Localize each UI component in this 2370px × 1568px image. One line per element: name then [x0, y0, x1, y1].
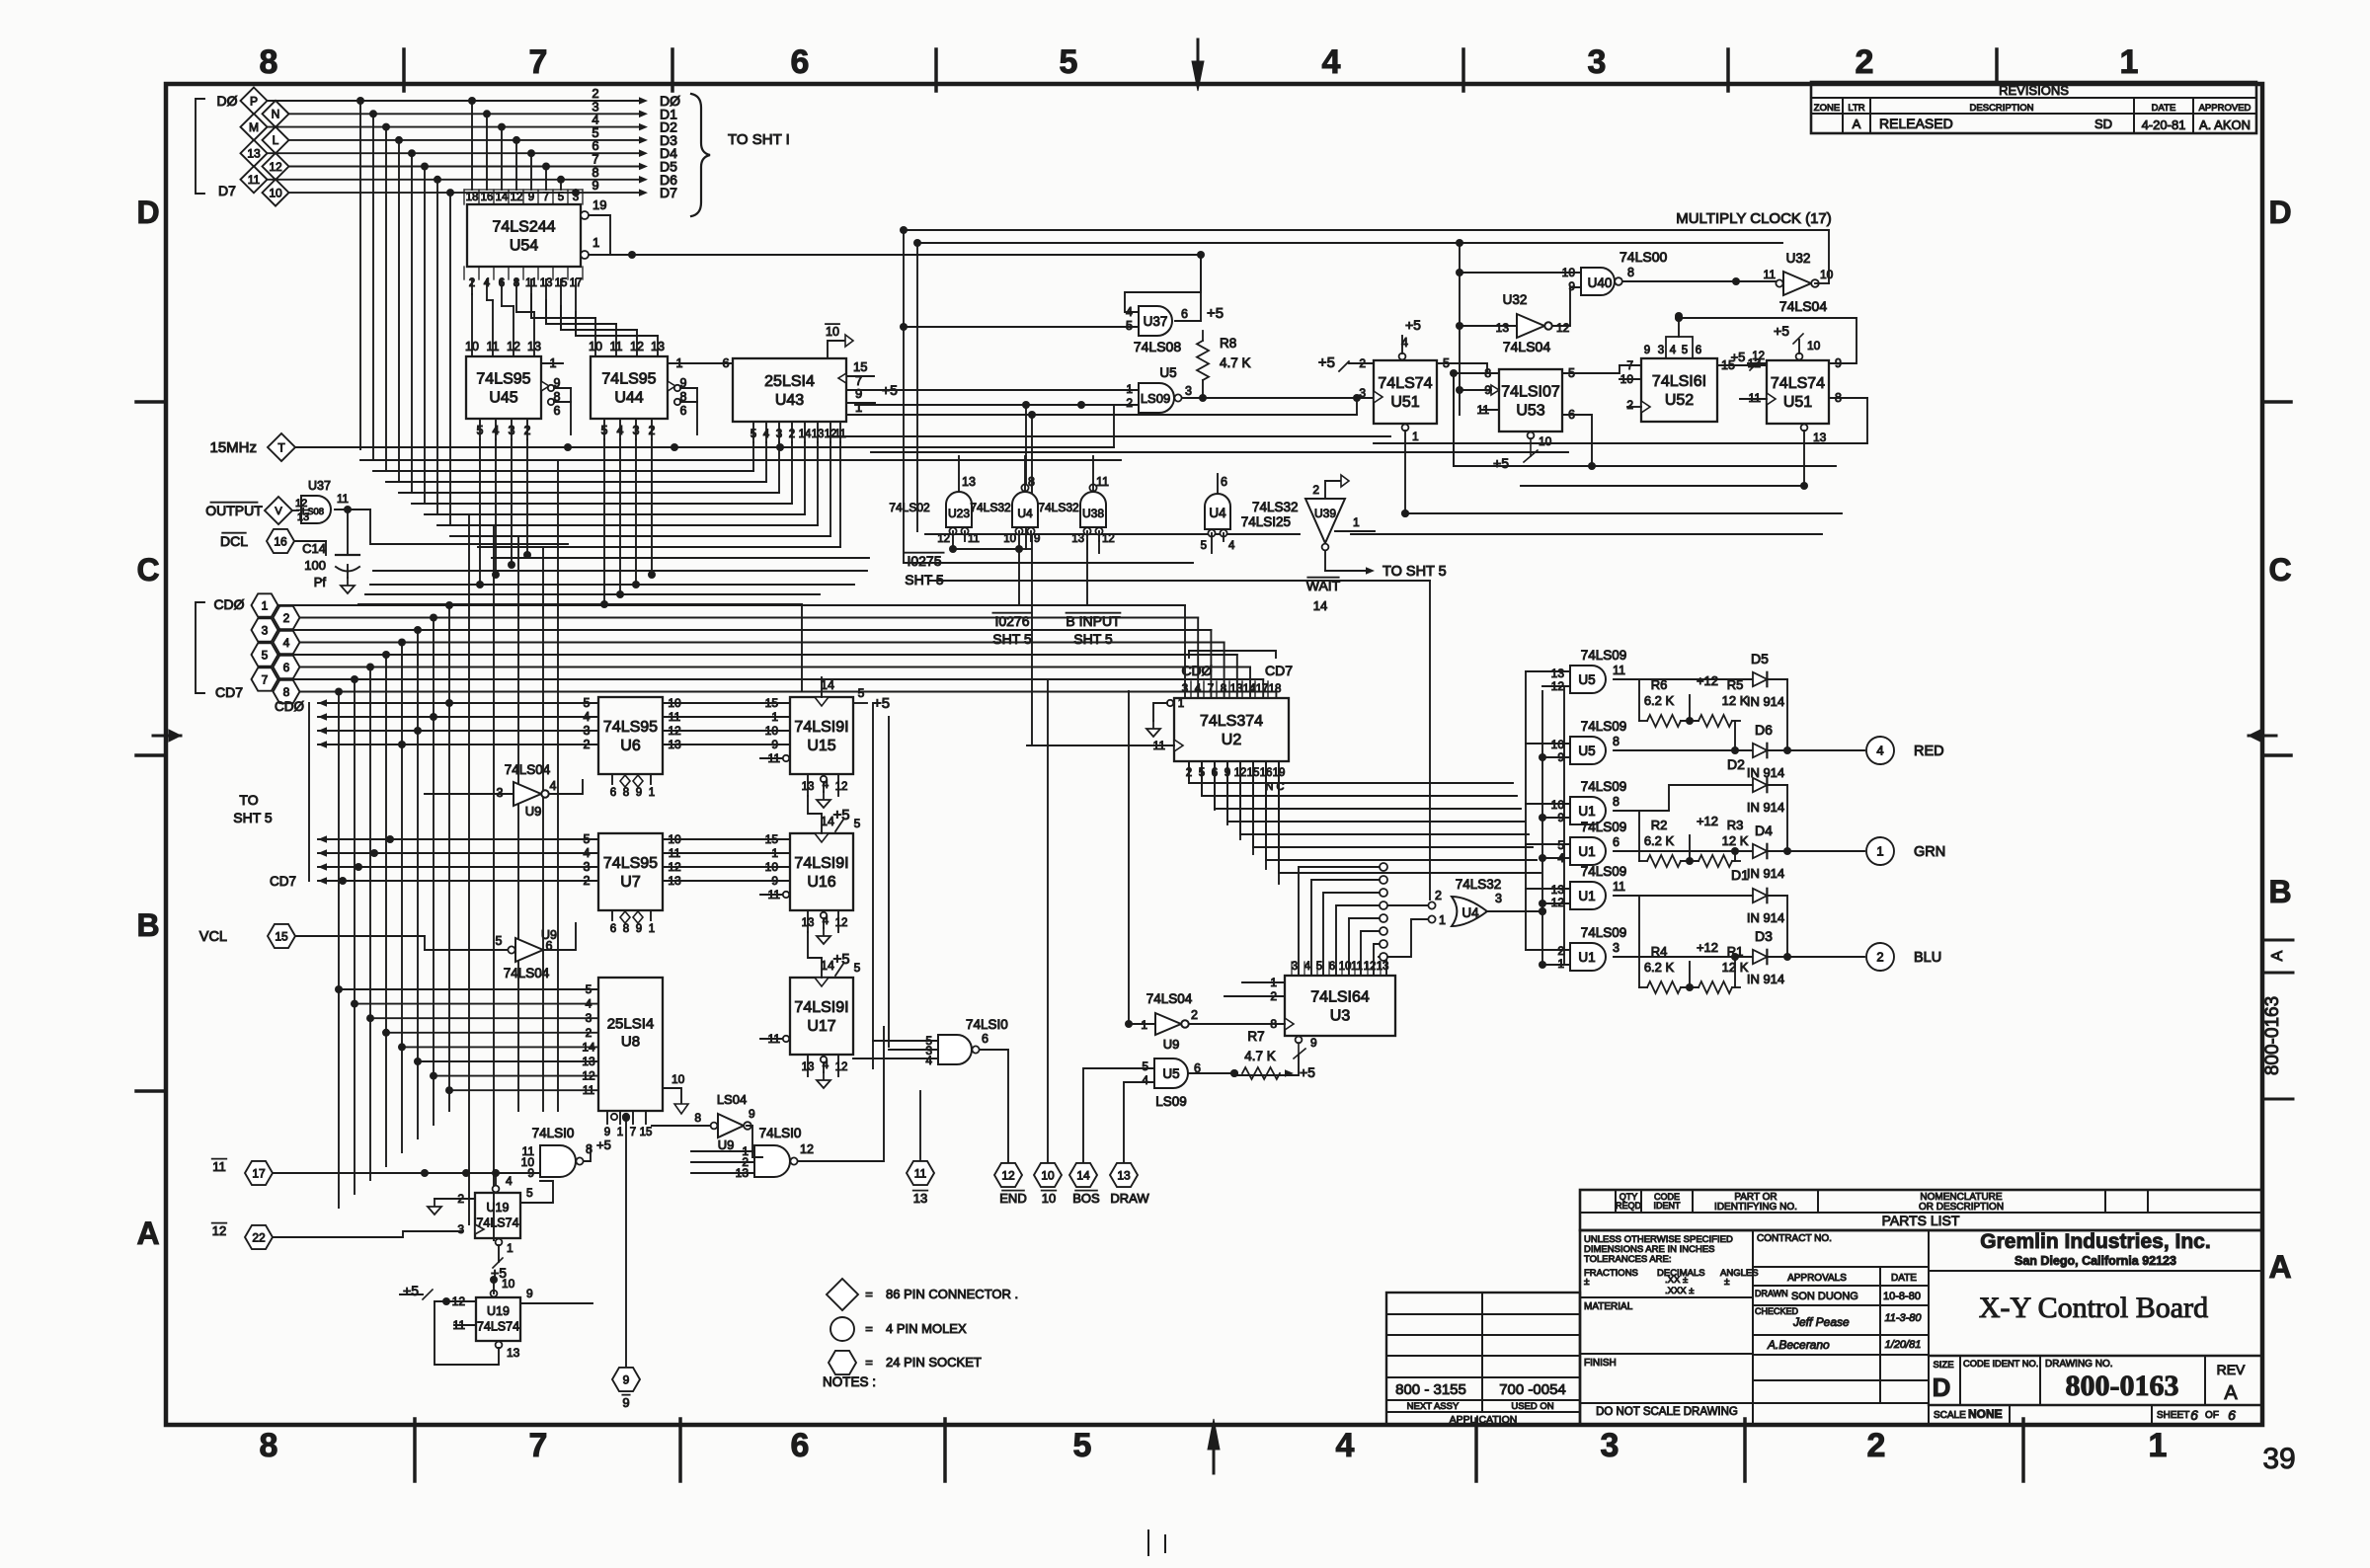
svg-text:IN 914: IN 914: [1747, 972, 1784, 986]
svg-text:OF: OF: [2205, 1410, 2219, 1421]
svg-text:2: 2: [649, 424, 656, 437]
svg-text:LS09: LS09: [1141, 391, 1170, 406]
svg-text:13: 13: [1496, 321, 1510, 335]
svg-text:1: 1: [1141, 1018, 1147, 1032]
svg-text:PARTS LIST: PARTS LIST: [1882, 1213, 1960, 1228]
svg-text:22: 22: [252, 1230, 266, 1244]
svg-text:6: 6: [283, 661, 290, 674]
svg-text:8: 8: [1028, 475, 1035, 489]
svg-text:MULTIPLY CLOCK (17): MULTIPLY CLOCK (17): [1676, 210, 1832, 227]
svg-text:3: 3: [1588, 43, 1607, 81]
svg-text:15: 15: [640, 1127, 653, 1138]
svg-text:74LS32: 74LS32: [1456, 877, 1502, 892]
svg-text:P: P: [250, 94, 258, 108]
svg-text:5: 5: [601, 424, 608, 437]
svg-text:D7: D7: [660, 185, 677, 200]
svg-text:+5: +5: [1318, 354, 1335, 371]
svg-text:14: 14: [1076, 1168, 1090, 1182]
svg-text:4: 4: [1322, 43, 1341, 81]
svg-text:5: 5: [1201, 540, 1207, 552]
svg-text:+5: +5: [1405, 317, 1421, 333]
svg-text:2: 2: [1557, 944, 1564, 958]
svg-text:10: 10: [269, 186, 282, 199]
svg-text:5: 5: [1682, 345, 1688, 356]
svg-text:4: 4: [1557, 851, 1564, 865]
svg-text:10: 10: [1539, 434, 1552, 448]
svg-text:3: 3: [1185, 384, 1192, 398]
svg-text:CDØ: CDØ: [213, 596, 244, 612]
svg-text:8: 8: [623, 787, 629, 799]
svg-text:14: 14: [1243, 683, 1256, 695]
svg-text:1: 1: [1126, 382, 1133, 396]
svg-text:11-3-80: 11-3-80: [1884, 1312, 1922, 1324]
svg-text:13: 13: [507, 1346, 520, 1360]
svg-text:12: 12: [295, 498, 307, 510]
svg-text:U4: U4: [1461, 905, 1479, 920]
svg-text:74LSI07: 74LSI07: [1501, 384, 1560, 401]
svg-text:D3: D3: [1755, 928, 1773, 944]
svg-text:7: 7: [262, 672, 269, 686]
svg-text:5: 5: [854, 817, 861, 830]
svg-text:15: 15: [275, 929, 288, 943]
svg-text:2: 2: [1191, 1008, 1198, 1022]
svg-text:74LS04: 74LS04: [1146, 991, 1193, 1006]
svg-text:SHT 5: SHT 5: [1073, 631, 1113, 647]
svg-text:12: 12: [1102, 533, 1115, 545]
svg-text:IN 914: IN 914: [1747, 910, 1784, 925]
svg-text:2: 2: [524, 424, 531, 437]
svg-text:3: 3: [1613, 941, 1619, 955]
svg-text:18: 18: [466, 192, 479, 203]
svg-text:C14: C14: [302, 541, 326, 556]
svg-text:END: END: [999, 1191, 1026, 1206]
svg-text:4: 4: [1304, 961, 1311, 973]
svg-text:74LSI9I: 74LSI9I: [794, 855, 848, 872]
svg-text:3: 3: [1359, 386, 1366, 400]
svg-text:15: 15: [765, 832, 779, 846]
svg-text:CODE IDENT NO.: CODE IDENT NO.: [1963, 1359, 2038, 1369]
svg-text:MATERIAL: MATERIAL: [1584, 1301, 1633, 1312]
svg-text:U1: U1: [1578, 844, 1595, 859]
svg-text:74LSI0: 74LSI0: [966, 1017, 1008, 1032]
svg-text:±: ±: [1724, 1277, 1730, 1288]
svg-text:6: 6: [1221, 475, 1227, 489]
svg-text:U5: U5: [1578, 744, 1595, 758]
svg-text:7: 7: [630, 1127, 636, 1138]
svg-text:D7: D7: [218, 183, 236, 198]
svg-text:+12: +12: [1697, 940, 1718, 955]
svg-text:13: 13: [1551, 883, 1565, 897]
svg-text:SHEET: SHEET: [2157, 1410, 2189, 1421]
svg-text:3: 3: [1495, 892, 1502, 905]
svg-text:3: 3: [776, 429, 782, 440]
svg-text:800-0163: 800-0163: [2066, 1370, 2179, 1402]
svg-text:1: 1: [2149, 1427, 2168, 1464]
svg-text:1: 1: [617, 1127, 623, 1138]
svg-text:CD7: CD7: [270, 874, 296, 889]
svg-text:U9: U9: [718, 1137, 735, 1152]
svg-text:74LSI0: 74LSI0: [532, 1126, 575, 1140]
svg-text:10: 10: [765, 860, 779, 874]
svg-text:SHT 5: SHT 5: [905, 572, 944, 588]
svg-text:U44: U44: [614, 390, 643, 407]
svg-text:9: 9: [636, 923, 642, 935]
svg-text:U9: U9: [541, 928, 557, 942]
svg-text:11: 11: [212, 1159, 226, 1174]
svg-text:74LSI64: 74LSI64: [1310, 989, 1370, 1006]
svg-text:U53: U53: [1516, 403, 1544, 420]
svg-text:U40: U40: [1588, 275, 1613, 290]
svg-text:10: 10: [1041, 1168, 1055, 1182]
svg-text:1: 1: [1557, 957, 1564, 971]
svg-text:2: 2: [1435, 889, 1442, 902]
svg-text:D: D: [136, 195, 159, 230]
svg-text:4 PIN MOLEX: 4 PIN MOLEX: [886, 1321, 967, 1336]
svg-text:6: 6: [1613, 835, 1619, 849]
svg-text:12: 12: [269, 160, 282, 174]
svg-text:U1: U1: [1578, 950, 1595, 965]
svg-text:9: 9: [855, 386, 862, 401]
svg-text:FINISH: FINISH: [1584, 1358, 1617, 1369]
svg-text:1: 1: [649, 787, 655, 799]
svg-text:100: 100: [304, 558, 326, 573]
svg-text:11: 11: [610, 340, 623, 353]
svg-text:4: 4: [617, 424, 624, 437]
svg-text:5: 5: [1126, 319, 1133, 333]
svg-text:TO SHT I: TO SHT I: [728, 131, 790, 148]
svg-text:3: 3: [573, 192, 579, 203]
svg-text:12: 12: [800, 1142, 814, 1156]
svg-text:APPROVALS: APPROVALS: [1787, 1273, 1847, 1284]
svg-text:3: 3: [457, 1222, 464, 1236]
svg-text:8: 8: [260, 1427, 278, 1464]
svg-text:D2: D2: [1727, 756, 1745, 772]
svg-text:U6: U6: [620, 738, 641, 754]
svg-text:DCL: DCL: [220, 533, 248, 549]
svg-text:A.Becerano: A.Becerano: [1767, 1338, 1830, 1352]
svg-text:4: 4: [1142, 1073, 1148, 1087]
svg-text:8: 8: [1613, 735, 1619, 748]
svg-text:13: 13: [527, 340, 541, 353]
svg-text:4: 4: [506, 1174, 513, 1188]
svg-text:8: 8: [1627, 266, 1634, 279]
svg-text:9: 9: [1557, 750, 1564, 764]
svg-text:9: 9: [1557, 811, 1564, 824]
svg-text:OR DESCRIPTION: OR DESCRIPTION: [1919, 1202, 2004, 1213]
svg-text:SD: SD: [2094, 117, 2112, 131]
svg-text:6: 6: [982, 1032, 988, 1046]
svg-text:SHT 5: SHT 5: [992, 631, 1032, 647]
svg-text:12: 12: [835, 917, 848, 929]
svg-text:5: 5: [1557, 838, 1564, 852]
svg-text:10: 10: [1551, 798, 1565, 812]
svg-text:6: 6: [1329, 961, 1335, 973]
svg-text:74LS00: 74LS00: [1619, 249, 1667, 265]
svg-text:U4: U4: [1209, 506, 1226, 520]
svg-text:C: C: [136, 552, 159, 588]
svg-text:+5: +5: [882, 382, 898, 398]
svg-text:12: 12: [630, 340, 644, 353]
svg-text:15: 15: [853, 359, 867, 374]
svg-text:4: 4: [493, 424, 500, 437]
svg-text:1: 1: [2120, 43, 2139, 81]
svg-text:9: 9: [528, 192, 534, 203]
svg-text:IN 914: IN 914: [1747, 866, 1784, 881]
svg-text:OUTPUT: OUTPUT: [205, 503, 263, 518]
svg-text:8: 8: [1613, 795, 1619, 809]
svg-text:10: 10: [1003, 533, 1016, 545]
svg-text:+12: +12: [1697, 814, 1718, 828]
svg-text:2: 2: [789, 429, 795, 440]
svg-text:6.2 K: 6.2 K: [1644, 693, 1675, 708]
svg-text:74LS09: 74LS09: [1581, 648, 1627, 663]
svg-text:LTR: LTR: [1848, 103, 1864, 114]
svg-text:10: 10: [1820, 268, 1834, 281]
svg-text:R4: R4: [1651, 944, 1668, 959]
svg-text:U54: U54: [510, 238, 538, 255]
svg-text:.XXX ±: .XXX ±: [1665, 1286, 1695, 1296]
svg-text:12: 12: [937, 533, 950, 545]
svg-text:10: 10: [826, 325, 839, 339]
svg-text:IN 914: IN 914: [1747, 694, 1784, 709]
svg-text:U5: U5: [1578, 672, 1595, 687]
svg-text:11: 11: [337, 494, 349, 506]
svg-text:U9: U9: [1163, 1037, 1180, 1052]
svg-text:12: 12: [1551, 896, 1565, 909]
svg-text:DRAWING NO.: DRAWING NO.: [2045, 1359, 2113, 1370]
svg-text:4: 4: [283, 636, 290, 650]
svg-text:4: 4: [1336, 1427, 1355, 1464]
svg-text:+5: +5: [1774, 323, 1789, 339]
svg-text:11: 11: [487, 340, 500, 353]
svg-text:3: 3: [1292, 961, 1298, 973]
svg-text:700 -0054: 700 -0054: [1499, 1381, 1566, 1398]
svg-text:74LS74: 74LS74: [1771, 375, 1825, 392]
svg-text:74LS74: 74LS74: [477, 1320, 519, 1334]
svg-text:74LS02: 74LS02: [889, 501, 930, 514]
svg-text:B: B: [2268, 874, 2291, 909]
svg-text:L: L: [273, 133, 279, 147]
svg-text:11: 11: [248, 173, 261, 187]
svg-text:3: 3: [1601, 1427, 1619, 1464]
svg-text:San Diego, California 92123: San Diego, California 92123: [2014, 1254, 2176, 1268]
svg-text:U4: U4: [1017, 507, 1033, 520]
svg-text:13: 13: [1813, 431, 1827, 444]
svg-text:74LS74: 74LS74: [476, 1216, 518, 1230]
svg-text:SIZE: SIZE: [1933, 1360, 1953, 1371]
svg-text:Pf: Pf: [314, 575, 327, 589]
svg-text:DØ: DØ: [217, 93, 238, 109]
svg-text:2: 2: [1856, 43, 1874, 81]
svg-text:WAIT: WAIT: [1306, 578, 1341, 593]
svg-text:74LS04: 74LS04: [1779, 298, 1827, 314]
svg-text:8: 8: [694, 1111, 701, 1125]
svg-text:1: 1: [649, 923, 655, 935]
svg-text:U15: U15: [807, 738, 835, 754]
svg-text:9: 9: [1310, 1036, 1317, 1050]
svg-text:12: 12: [1551, 679, 1565, 693]
svg-text:DESCRIPTION: DESCRIPTION: [1970, 103, 2034, 114]
svg-text:1: 1: [1439, 913, 1446, 927]
svg-text:3: 3: [1182, 683, 1188, 695]
svg-text:74LSI25: 74LSI25: [1241, 514, 1291, 529]
svg-text:74LS09: 74LS09: [1581, 779, 1627, 794]
svg-text:T: T: [277, 440, 285, 454]
svg-text:U9: U9: [525, 804, 542, 819]
svg-text:+5: +5: [1731, 350, 1746, 364]
svg-text:RED: RED: [1914, 744, 1944, 759]
svg-text:CONTRACT NO.: CONTRACT NO.: [1757, 1233, 1832, 1244]
svg-text:=: =: [865, 1321, 873, 1336]
svg-text:U3: U3: [1330, 1008, 1351, 1025]
svg-text:REVISIONS: REVISIONS: [1999, 83, 2069, 98]
svg-text:74LS95: 74LS95: [601, 371, 656, 388]
svg-text:RELEASED: RELEASED: [1879, 116, 1953, 131]
svg-text:74LS04: 74LS04: [1503, 339, 1550, 354]
svg-text:=: =: [865, 1355, 873, 1370]
svg-text:5: 5: [854, 961, 861, 975]
svg-text:10: 10: [1042, 1191, 1056, 1206]
svg-text:D4: D4: [1755, 823, 1773, 838]
svg-text:U51: U51: [1390, 394, 1419, 411]
svg-text:10: 10: [671, 1072, 685, 1086]
svg-text:17: 17: [252, 1166, 266, 1180]
svg-text:74LS74: 74LS74: [1378, 375, 1432, 392]
svg-text:12: 12: [1556, 321, 1570, 335]
svg-text:13: 13: [913, 1191, 927, 1206]
svg-text:IDENTIFYING NO.: IDENTIFYING NO.: [1714, 1202, 1797, 1213]
svg-text:U19: U19: [487, 1304, 510, 1318]
svg-text:7: 7: [529, 1427, 548, 1464]
svg-text:800 - 3155: 800 - 3155: [1395, 1381, 1466, 1398]
svg-text:12: 12: [835, 781, 848, 793]
svg-text:12: 12: [1001, 1168, 1015, 1182]
svg-text:9: 9: [771, 874, 778, 888]
svg-text:2: 2: [1312, 483, 1319, 497]
svg-text:U5: U5: [1162, 1066, 1179, 1081]
svg-text:12 K: 12 K: [1722, 693, 1749, 708]
svg-text:5: 5: [750, 429, 756, 440]
svg-text:11: 11: [968, 533, 980, 545]
svg-text:14: 14: [496, 192, 509, 203]
svg-text:74LS04: 74LS04: [505, 762, 551, 777]
svg-text:I0276: I0276: [994, 613, 1029, 629]
svg-text:REV: REV: [2217, 1362, 2246, 1377]
svg-text:9: 9: [526, 1287, 533, 1300]
svg-text:4: 4: [1876, 744, 1883, 758]
svg-text:Jeff Pease: Jeff Pease: [1792, 1315, 1850, 1329]
svg-text:6: 6: [1181, 307, 1188, 321]
svg-text:U52: U52: [1665, 392, 1694, 409]
svg-text:9: 9: [592, 178, 598, 193]
svg-text:10: 10: [1807, 339, 1821, 353]
svg-text:13: 13: [962, 475, 976, 489]
svg-text:14: 14: [799, 429, 812, 440]
svg-text:10: 10: [765, 724, 779, 738]
svg-text:74LS09: 74LS09: [1581, 864, 1627, 879]
svg-text:DRAWN: DRAWN: [1755, 1289, 1788, 1298]
svg-text:5: 5: [496, 934, 503, 948]
svg-text:C: C: [2268, 552, 2291, 588]
svg-text:D: D: [1933, 1372, 1951, 1402]
svg-text:U1: U1: [1578, 889, 1595, 903]
svg-text:4: 4: [925, 1054, 932, 1067]
svg-text:SON DUONG: SON DUONG: [1791, 1291, 1858, 1302]
svg-text:13: 13: [651, 340, 665, 353]
svg-text:R3: R3: [1727, 818, 1744, 832]
svg-text:A: A: [2224, 1382, 2238, 1404]
svg-text:U19: U19: [487, 1201, 510, 1215]
svg-text:11: 11: [1613, 664, 1625, 677]
svg-text:13: 13: [1551, 666, 1565, 680]
svg-text:4: 4: [1228, 540, 1235, 552]
svg-text:6: 6: [2190, 1407, 2198, 1423]
svg-text:13: 13: [1230, 683, 1243, 695]
svg-text:4: 4: [763, 429, 770, 440]
svg-text:+5: +5: [596, 1137, 611, 1152]
svg-text:5: 5: [858, 686, 865, 700]
svg-text:A: A: [1853, 117, 1861, 131]
svg-text:11: 11: [1613, 880, 1625, 894]
svg-text:9: 9: [1034, 533, 1040, 545]
svg-text:R7: R7: [1247, 1029, 1264, 1044]
svg-text:18: 18: [1269, 683, 1282, 695]
svg-text:13: 13: [1117, 1168, 1131, 1182]
svg-text:R6: R6: [1651, 677, 1668, 692]
svg-text:74LS32: 74LS32: [1038, 501, 1079, 514]
svg-text:9: 9: [1644, 345, 1650, 356]
svg-text:11: 11: [834, 429, 846, 440]
svg-text:74LSI0: 74LSI0: [759, 1126, 802, 1140]
svg-text:1: 1: [855, 400, 862, 415]
svg-text:NONE: NONE: [1968, 1407, 2003, 1421]
svg-text:1: 1: [771, 846, 778, 860]
svg-text:CHECKED: CHECKED: [1755, 1306, 1799, 1316]
svg-text:11: 11: [1749, 391, 1762, 405]
svg-text:TO: TO: [239, 792, 258, 808]
svg-text:D1: D1: [1731, 867, 1749, 883]
svg-text:=: =: [865, 1287, 873, 1301]
svg-text:U5: U5: [1159, 365, 1176, 380]
svg-text:16: 16: [274, 534, 287, 548]
svg-text:U8: U8: [621, 1034, 640, 1051]
svg-text:74LS32: 74LS32: [970, 501, 1011, 514]
svg-text:DRAW: DRAW: [1110, 1191, 1149, 1206]
svg-text:8: 8: [260, 43, 278, 81]
svg-text:R5: R5: [1727, 677, 1744, 692]
svg-text:TO SHT 5: TO SHT 5: [1382, 564, 1447, 580]
svg-text:1: 1: [1412, 430, 1419, 443]
svg-text:CDØ: CDØ: [275, 699, 304, 714]
svg-text:U37: U37: [308, 479, 331, 493]
svg-text:800-0163: 800-0163: [2262, 996, 2283, 1075]
svg-text:74LS95: 74LS95: [476, 371, 530, 388]
svg-text:74LS374: 74LS374: [1200, 713, 1263, 730]
svg-text:U43: U43: [775, 392, 804, 409]
svg-text:NOTES :: NOTES :: [823, 1374, 876, 1389]
svg-text:6: 6: [610, 787, 616, 799]
svg-text:+5: +5: [873, 695, 890, 712]
svg-text:U23: U23: [948, 507, 970, 520]
svg-text:Gremlin Industries, Inc.: Gremlin Industries, Inc.: [1980, 1230, 2210, 1253]
svg-text:7: 7: [543, 192, 549, 203]
svg-text:14: 14: [821, 678, 834, 692]
svg-text:A: A: [136, 1215, 159, 1251]
svg-text:25LSI4: 25LSI4: [607, 1016, 655, 1033]
svg-text:A: A: [2269, 950, 2286, 961]
svg-text:9: 9: [527, 1166, 534, 1180]
svg-text:6: 6: [680, 404, 687, 418]
